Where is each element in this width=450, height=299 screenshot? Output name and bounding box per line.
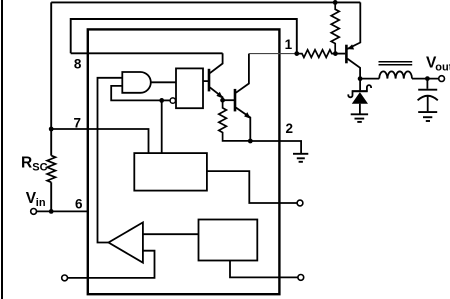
label Rsc xyxy=(21,155,32,172)
label Vin xyxy=(26,190,37,207)
resistor RB base drive horizontal xyxy=(297,50,336,58)
svg-text:in: in xyxy=(36,197,46,209)
wire: pin 2 line out of IC to ground xyxy=(250,141,301,154)
pin label 6 xyxy=(75,197,83,212)
wire: reference box bottom to pin 4 terminal xyxy=(230,261,298,278)
wire: Rsc bottom lead to Vin node xyxy=(50,182,52,211)
AND gate U2 xyxy=(122,72,151,93)
wire: switch node to inductor xyxy=(360,78,379,80)
oscillator box U4 xyxy=(134,153,207,191)
diode D1 anode triangle (filled) xyxy=(352,92,368,104)
diode D1 cathode bar with schottky hooks xyxy=(348,85,371,97)
node: junction dot pin 1 node xyxy=(294,51,299,56)
transistor Q1 emitter with arrow down to pin2 node xyxy=(236,108,251,142)
ground symbol below diode xyxy=(351,113,368,115)
wire: capacitor to ground xyxy=(427,97,429,112)
pin label 7 xyxy=(74,115,82,130)
node: junction dot pin6/Vin xyxy=(49,209,54,214)
pin label 2 xyxy=(285,121,293,136)
reference regulator box U6 xyxy=(199,220,258,261)
svg-text:out: out xyxy=(435,61,450,73)
wire: Q1 base xyxy=(223,99,234,101)
wire: oscillator to latch inverted input, junction to AND input xyxy=(162,99,170,101)
transistor Q2 collector to pin 8 line xyxy=(210,53,223,73)
wire: inductor to Vout xyxy=(412,78,439,80)
capacitor C1 output: lead from Vout node xyxy=(426,79,428,89)
wire: left vertical x=51.2 from rail down to Vin node xyxy=(50,2,52,155)
node: junction dot pin2 / Q1 emitter / R xyxy=(248,139,253,144)
capacitor C1 curved plate xyxy=(418,96,438,101)
svg-text:8: 8 xyxy=(74,57,82,72)
transistor Q3 collector down to switch node xyxy=(347,59,360,79)
wire: base node to Q3 bar xyxy=(335,53,345,55)
node: junction dot resistor / pull-up xyxy=(333,51,338,56)
latch box U3 xyxy=(176,68,203,108)
node: junction dot pin7/Rsc xyxy=(49,127,54,132)
wire: comparator output up to AND gate top input xyxy=(98,78,123,243)
pin label 1 xyxy=(285,37,293,52)
IC box U1 (switching regulator) xyxy=(88,29,280,294)
inverter bubble at latch input xyxy=(170,98,175,103)
comparator U5 triangle xyxy=(109,222,143,262)
transistor Q1 switch bar xyxy=(234,89,237,112)
resistor Rsc zigzag xyxy=(47,156,55,183)
wire: pin 1 internal thin line from Q1 collector to external node xyxy=(249,53,297,55)
transistor Q2 bar xyxy=(208,69,211,92)
wire: pin 8 line y=53.3 from corner into IC to Q2 collector xyxy=(71,52,223,54)
transistor Q2 driver: base wire from latch xyxy=(203,80,208,82)
label Vout xyxy=(426,54,437,71)
pin label 8 xyxy=(74,57,82,72)
ground symbol below capacitor xyxy=(418,111,437,113)
wire: diode to ground xyxy=(359,104,361,114)
wire: comparator + input to reference box xyxy=(143,233,199,235)
wire: AND gate bottom input from oscillator line xyxy=(111,86,162,101)
node: junction dot on top rail xyxy=(333,0,338,5)
wire: comparator - input step to pin 5 line xyxy=(68,251,155,278)
wire: oscillator output to pin 3 terminal xyxy=(207,171,297,203)
ground symbol at pin 2 xyxy=(293,153,308,155)
wire: top supply rail y=2.4 from left vertical to external transistor emitter corner xyxy=(51,1,360,3)
svg-text:SC: SC xyxy=(32,161,47,173)
wire: vertical from osc top to AND/latch line xyxy=(161,100,163,153)
terminal pin 4 open circle xyxy=(298,275,304,281)
node: junction dot Vout node xyxy=(425,76,430,81)
terminal Vin open circle xyxy=(31,209,37,215)
transistor Q3 emitter (top, arrow into bar) and lead up to rail xyxy=(347,2,360,49)
transistor Q3 external PNP bar xyxy=(345,45,348,64)
transistor Q2 emitter with arrow xyxy=(210,87,223,100)
wire: pin8-to-pin1 external link at y=19 xyxy=(71,19,297,54)
terminal pin 3 open circle xyxy=(297,200,303,206)
wire: pin 7 line y=129 from Rsc node into IC to oscillator xyxy=(51,129,148,153)
svg-text:1: 1 xyxy=(285,37,293,52)
transistor Q1 collector up to pin 1 line xyxy=(236,54,249,93)
wire: pin 6 line y=211.4 from Vin terminal to IC border xyxy=(37,210,88,212)
node: junction dot AND/osc xyxy=(159,98,164,103)
inductor L1 humps xyxy=(379,71,412,78)
diode D1 schottky: lead from switch node xyxy=(359,79,361,91)
terminal pin 5 open circle xyxy=(62,275,68,281)
svg-text:7: 7 xyxy=(74,115,82,130)
svg-text:R: R xyxy=(21,155,32,172)
node: junction dot switch node xyxy=(358,76,363,81)
wire: AND gate output to latch xyxy=(151,81,176,83)
terminal Vout open circle xyxy=(439,76,445,82)
resistor R 100 ohm vertical below Q2 emitter xyxy=(219,100,251,141)
resistor R pull-up vertical from rail to base node xyxy=(331,2,339,53)
page left border line xyxy=(1,0,3,299)
node: junction dot Q2 emitter / Q1 base / R 100 ohm xyxy=(220,98,225,103)
inductor core bars xyxy=(379,61,413,63)
svg-text:6: 6 xyxy=(75,197,83,212)
svg-text:2: 2 xyxy=(285,121,293,136)
capacitor C1 flat plate xyxy=(418,89,437,91)
